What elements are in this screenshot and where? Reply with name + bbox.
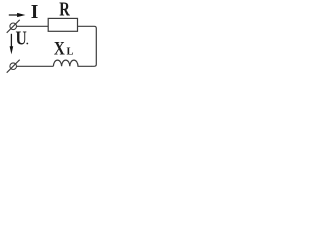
wire bottom (T2 to inductor) [17,65,54,67]
voltage arrow U (points down) [10,34,14,55]
svg-text:R: R [59,0,70,20]
svg-text:U: U [16,27,27,49]
resistor R [48,18,77,31]
wire right (resistor to inductor, with rounded corners) [78,26,97,66]
terminal T2 (bottom source terminal, circle with slash) [7,60,20,73]
terminal T1 (top source terminal, circle with slash) [7,20,20,33]
current arrow I [9,13,26,17]
inductor XL (3 humps) [53,60,92,66]
svg-text:I: I [31,2,39,23]
svg-text:X: X [54,38,65,59]
svg-text:L: L [67,46,74,57]
wire top (T1 to resistor) [17,25,49,27]
period after U [26,43,28,45]
